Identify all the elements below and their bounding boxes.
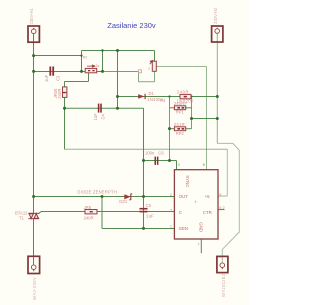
svg-text:1uF: 1uF (93, 113, 98, 121)
svg-text:RP1: RP1 (176, 110, 185, 115)
svg-text:3: 3 (170, 209, 172, 213)
svg-text:240RF: 240RF (174, 101, 188, 106)
svg-text:C3: C3 (56, 75, 61, 81)
svg-text:Zasilanie 230v: Zasilanie 230v (107, 21, 156, 30)
svg-text:2: 2 (148, 67, 150, 71)
svg-text:1uF: 1uF (44, 74, 49, 82)
svg-text:RP2: RP2 (176, 131, 185, 136)
svg-text:GEN: GEN (179, 226, 189, 231)
svg-text:1k: 1k (96, 64, 100, 68)
svg-text:1N4004: 1N4004 (147, 97, 163, 102)
svg-text:T1: T1 (19, 216, 25, 221)
svg-text:CTR: CTR (203, 210, 212, 215)
svg-text:2: 2 (223, 206, 225, 210)
svg-text:C6: C6 (158, 151, 164, 156)
svg-text:C5: C5 (146, 203, 152, 208)
svg-text:DZ1: DZ1 (119, 199, 128, 204)
svg-text:6: 6 (219, 206, 221, 210)
svg-text:R2: R2 (83, 56, 88, 60)
svg-text:DIODE ZENERPTH: DIODE ZENERPTH (77, 189, 117, 194)
svg-text:WYJ-230V: WYJ-230V (32, 277, 37, 300)
svg-text:D1: D1 (149, 91, 155, 96)
svg-text:241R: 241R (174, 122, 185, 127)
svg-text:5: 5 (178, 163, 180, 167)
svg-text:1: 1 (170, 225, 172, 229)
svg-text:GND: GND (198, 222, 203, 232)
svg-text:JR05: JR05 (53, 88, 58, 98)
svg-text:C: C (179, 210, 182, 215)
svg-text:230V-H1: 230V-H1 (29, 8, 34, 25)
svg-text:240R: 240R (177, 90, 189, 95)
svg-text:SYNC: SYNC (185, 175, 190, 187)
svg-text:100n: 100n (145, 151, 155, 156)
svg-text:1uF: 1uF (146, 213, 154, 218)
svg-text:WYJSCIE2: WYJSCIE2 (221, 273, 226, 297)
svg-text:JR6: JR6 (84, 205, 92, 210)
svg-text:OUT: OUT (179, 194, 189, 199)
svg-text:2: 2 (170, 193, 172, 197)
svg-text:7: 7 (198, 243, 200, 247)
svg-text:+: + (194, 199, 197, 204)
svg-text:230V-H2: 230V-H2 (213, 7, 218, 24)
svg-text:+5: +5 (205, 194, 211, 199)
svg-text:C4: C4 (101, 113, 106, 119)
svg-text:240R: 240R (84, 215, 94, 220)
svg-text:8: 8 (219, 193, 221, 197)
